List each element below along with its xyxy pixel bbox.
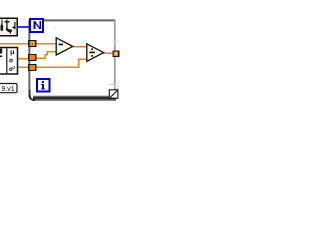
svg-text:μ: μ <box>10 47 15 56</box>
svg-text:σ²: σ² <box>9 64 16 73</box>
svg-text:9.v1: 9.v1 <box>1 86 14 93</box>
